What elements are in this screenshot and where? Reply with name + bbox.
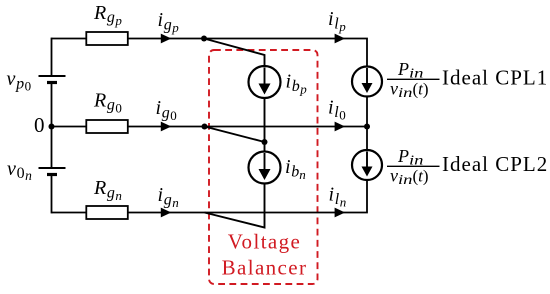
node 0 junction dot <box>49 124 55 130</box>
current arrow i_g0 <box>161 122 170 130</box>
current arrow i_lp <box>335 34 344 42</box>
wire: top rail from R_gp to corner and down to CPL1 <box>128 39 367 67</box>
node: middle rail to CPL bus junction <box>364 124 370 130</box>
svg-text:Rgn: Rgn <box>93 177 122 203</box>
svg-text:Pin: Pin <box>397 59 424 82</box>
svg-text:Ideal CPL2: Ideal CPL2 <box>442 152 548 176</box>
label: Voltage Balancer <box>222 230 308 280</box>
svg-text:igp: igp <box>158 9 180 35</box>
wire: left DC bus upper segment (top rail to v_p0 plate) <box>51 38 53 76</box>
current arrow i_ln <box>335 208 344 216</box>
node: top rail / balancer tap junction <box>201 36 207 42</box>
svg-text:0: 0 <box>34 113 45 137</box>
svg-text:vin(t): vin(t) <box>390 166 429 189</box>
current source i_bp <box>249 66 281 98</box>
svg-text:vp0: vp0 <box>7 68 32 93</box>
svg-text:ign: ign <box>158 184 179 210</box>
wire: bottom rail from left bus to R_gn <box>52 212 87 214</box>
svg-text:Voltage: Voltage <box>228 230 302 254</box>
current arrow i_gp <box>161 34 170 42</box>
wire: CPL bus between CPL1 and CPL2 <box>366 97 368 151</box>
current source U2: Ideal CPL2 <box>352 150 382 180</box>
svg-text:il0: il0 <box>328 96 346 122</box>
node: middle rail / balancer tap junction <box>202 124 208 130</box>
svg-text:Rg0: Rg0 <box>93 89 122 115</box>
wire: top rail from left bus to R_gp <box>52 38 87 40</box>
wire: balancer tap from top rail node down to i_bp <box>204 39 265 67</box>
wire: middle rail from R_g0 to CPL junction <box>128 126 367 128</box>
svg-text:ibn: ibn <box>285 156 306 182</box>
current source U1: Ideal CPL1 <box>352 67 382 97</box>
wire: left bus lower segment (v_0n to bottom rail) <box>51 175 53 214</box>
resistor R_g0 <box>86 120 128 133</box>
wire: bottom rail from R_gn to corner and up to CPL2 <box>128 180 367 213</box>
wire: i_bp to i_bn through balancer midpoint (crosses middle rail) <box>264 98 266 152</box>
wire: i_bn down then diagonal tap to bottom rail (crosses bottom rail) <box>205 184 265 228</box>
svg-text:Rgp: Rgp <box>93 2 122 28</box>
resistor R_gp <box>86 32 128 45</box>
label: value P_in/v_in(t) for CPL1 <box>387 59 440 101</box>
current arrow i_l0 <box>335 122 344 130</box>
voltage source v_0n (battery) <box>39 168 66 175</box>
red dashed boundary: Voltage Balancer block <box>209 50 318 284</box>
wire: balancer tap from middle rail node to midpoint junction <box>205 127 265 143</box>
svg-text:Pin: Pin <box>397 146 424 169</box>
svg-text:Balancer: Balancer <box>222 255 308 279</box>
svg-text:Ideal CPL1: Ideal CPL1 <box>442 65 548 89</box>
node: balancer midpoint junction <box>262 139 268 145</box>
svg-text:ilp: ilp <box>328 8 346 34</box>
svg-text:iln: iln <box>329 183 347 209</box>
svg-text:vin(t): vin(t) <box>390 79 429 102</box>
wire: middle rail from node 0 to R_g0 <box>52 126 87 128</box>
voltage source v_p0 (battery) <box>39 76 66 83</box>
current arrow i_gn <box>161 208 170 216</box>
svg-text:v0n: v0n <box>7 158 32 183</box>
resistor R_gn <box>86 206 128 219</box>
current source i_bn <box>249 152 281 184</box>
label: value P_in/v_in(t) for CPL2 <box>387 146 440 188</box>
wire: left bus between v_p0 and v_0n through node 0 <box>51 83 53 169</box>
svg-text:ig0: ig0 <box>156 97 177 123</box>
svg-text:ibp: ibp <box>286 70 308 96</box>
